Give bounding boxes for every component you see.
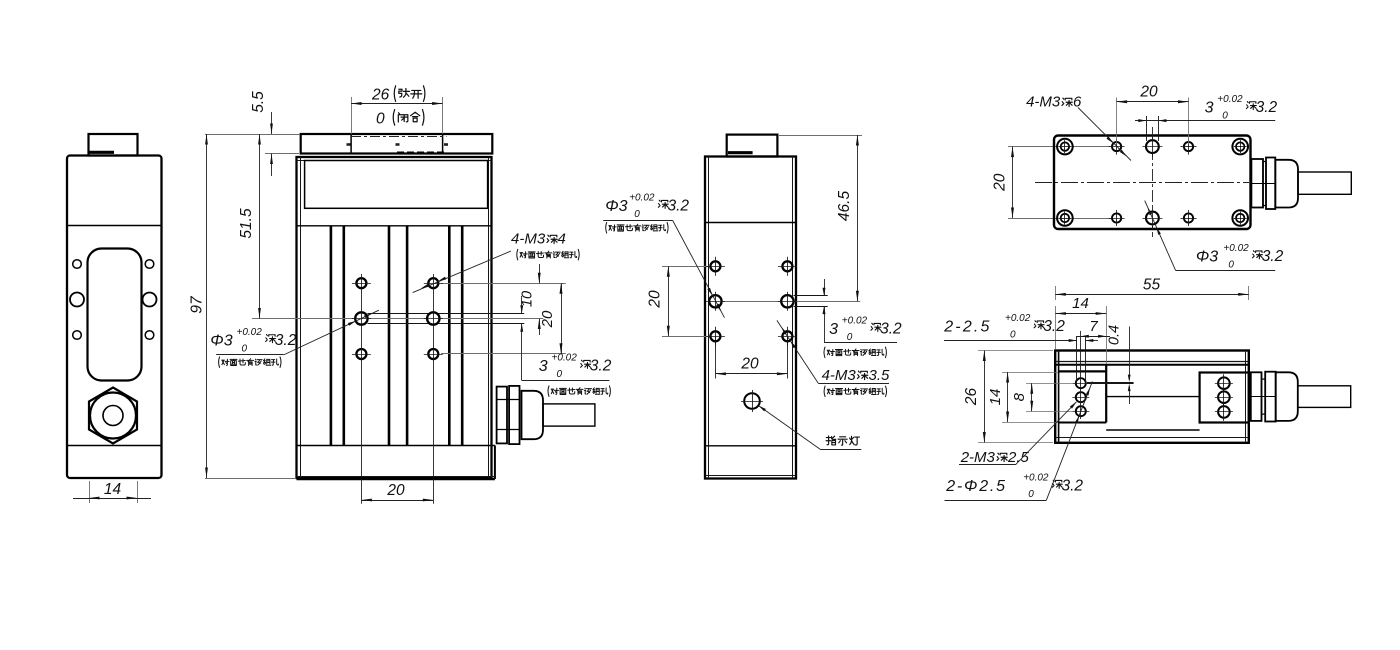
svg-text:20: 20 bbox=[740, 356, 759, 373]
dimension 0.4 (view5) bbox=[1129, 327, 1131, 380]
view3 indicator light bbox=[744, 393, 760, 409]
view1 hex nut bbox=[89, 388, 137, 444]
view2 phantom centerline of jaws bbox=[351, 136, 447, 138]
view1 nut outer circle bbox=[90, 393, 136, 439]
svg-text:2-Φ2.5: 2-Φ2.5 bbox=[945, 478, 1007, 495]
svg-text:Φ3: Φ3 bbox=[210, 332, 232, 349]
view3 slot edges row2 bbox=[794, 295, 828, 297]
svg-text:51.5: 51.5 bbox=[238, 208, 255, 239]
view3 section lines bbox=[705, 222, 796, 224]
svg-text:+0.02: +0.02 bbox=[842, 316, 868, 327]
dimension 14 top (view5) bbox=[1055, 306, 1057, 349]
leader Phi3 (view3) bbox=[673, 221, 725, 318]
view2 row1 extension line bbox=[441, 283, 566, 285]
svg-text:0: 0 bbox=[847, 332, 853, 343]
svg-text:2.5: 2.5 bbox=[1007, 449, 1030, 466]
view4 extension lines left bbox=[1008, 146, 1121, 148]
dimension 26 (view5 left) bbox=[978, 350, 1053, 352]
view4 top/bottom hole rows bbox=[1112, 142, 1121, 151]
svg-text:5.5: 5.5 bbox=[250, 91, 267, 113]
view3 hole col extensions for bottom 20 dim bbox=[715, 336, 717, 378]
dimension 26 open (view2 top) bbox=[351, 97, 353, 134]
svg-text:3: 3 bbox=[1205, 99, 1214, 116]
view2 jaw open-position lines bbox=[350, 134, 352, 154]
dimension 20 vertical (view3 left) bbox=[668, 266, 670, 336]
view3 row extension lines for 20 dim bbox=[662, 266, 710, 268]
svg-text:+0.02: +0.02 bbox=[1023, 473, 1049, 484]
leader 2-Phi2.5 (view5) bbox=[1046, 381, 1092, 500]
view2 mounting holes 2x3 bbox=[356, 278, 366, 288]
svg-text:0.4: 0.4 bbox=[1107, 325, 1123, 345]
view2 guide rail columns bbox=[330, 226, 333, 446]
svg-text:46.5: 46.5 bbox=[836, 191, 853, 222]
svg-text:0: 0 bbox=[242, 344, 248, 355]
view4 corner screws bbox=[1057, 139, 1073, 155]
view2 row3 extension line bbox=[441, 353, 566, 355]
label 3 tol depth3.2 (view3 right) bbox=[824, 279, 826, 296]
dimension 20 (view2 bottom) bbox=[361, 500, 433, 502]
svg-text:3: 3 bbox=[539, 358, 548, 375]
view2 section divider bbox=[297, 225, 492, 227]
view2 cable bbox=[543, 404, 595, 426]
svg-text:3.2: 3.2 bbox=[1043, 318, 1065, 335]
view5 rail lines bbox=[1106, 396, 1199, 398]
svg-text:0: 0 bbox=[376, 110, 385, 127]
svg-text:2-M3: 2-M3 bbox=[960, 449, 996, 466]
view4 cable bbox=[1298, 172, 1351, 194]
svg-text:3.2: 3.2 bbox=[275, 332, 297, 349]
svg-text:+0.02: +0.02 bbox=[552, 353, 578, 364]
svg-text:14: 14 bbox=[1072, 295, 1089, 312]
dimension 7 (view5) bbox=[1076, 336, 1110, 338]
dimension 46.5 (view3 right) bbox=[779, 135, 862, 137]
svg-text:0: 0 bbox=[634, 209, 640, 220]
svg-text:0: 0 bbox=[1228, 260, 1234, 271]
svg-text:3.2: 3.2 bbox=[1262, 248, 1284, 265]
dimension 97 (view2 overall height) bbox=[205, 134, 300, 136]
view5 0.4 step lines bbox=[1087, 382, 1134, 384]
svg-text:4-M3: 4-M3 bbox=[511, 231, 546, 248]
svg-text:3.2: 3.2 bbox=[880, 321, 902, 338]
leader 4-M3 (view4) bbox=[1078, 108, 1131, 161]
svg-text:8: 8 bbox=[1011, 392, 1028, 401]
view5 left finger block bbox=[1059, 370, 1107, 372]
view4 body bbox=[1054, 136, 1251, 230]
view1 side holes bbox=[73, 260, 82, 269]
view2 upper inner box bbox=[305, 161, 488, 209]
view2 top cap bbox=[301, 134, 493, 154]
svg-text:0: 0 bbox=[557, 369, 563, 380]
label 3 tol depth3.2 (view2 right) bbox=[521, 296, 523, 313]
leader 2-M3 (view5) bbox=[1016, 402, 1077, 465]
view1: left side view of gripper body bbox=[67, 134, 162, 503]
view5 slot edge verticals bbox=[1076, 337, 1078, 383]
dimension 14 vertical (view5) bbox=[1002, 372, 1058, 374]
view2 cable gland bbox=[497, 387, 507, 444]
view5 cable bbox=[1298, 386, 1351, 408]
svg-text:26: 26 bbox=[371, 87, 390, 104]
label indicator light bbox=[759, 406, 821, 450]
svg-text:20: 20 bbox=[386, 482, 405, 499]
svg-text:97: 97 bbox=[189, 295, 206, 314]
svg-text:+0.02: +0.02 bbox=[1223, 243, 1249, 254]
dimension 20 (view2 right) bbox=[561, 283, 563, 354]
svg-text:55: 55 bbox=[1143, 277, 1161, 294]
svg-text:7: 7 bbox=[1089, 318, 1098, 335]
leader Phi3 (view2) bbox=[283, 310, 379, 355]
view2 body outline bbox=[297, 157, 492, 478]
svg-text:+0.02: +0.02 bbox=[629, 193, 655, 204]
svg-text:Φ3: Φ3 bbox=[605, 198, 627, 215]
svg-text:3.2: 3.2 bbox=[590, 358, 612, 375]
svg-text:0: 0 bbox=[1222, 111, 1228, 122]
leader 4-M3 (view2) bbox=[413, 251, 511, 293]
view5 body bbox=[1055, 351, 1249, 443]
view1 nut bore circle bbox=[103, 406, 123, 426]
svg-text:14: 14 bbox=[104, 481, 122, 498]
dimension 5.5 (view2 cap height) bbox=[265, 153, 299, 155]
view1 lower section line bbox=[67, 445, 162, 447]
svg-text:+0.02: +0.02 bbox=[237, 327, 263, 338]
svg-text:+0.02: +0.02 bbox=[1217, 94, 1243, 105]
label 3 tol depth3.2 (view4) bbox=[1135, 120, 1275, 122]
svg-text:3.2: 3.2 bbox=[1256, 99, 1278, 116]
svg-text:20: 20 bbox=[539, 310, 556, 328]
label Phi3 tol depth3.2 (view4 bottom) bbox=[1176, 270, 1276, 272]
dimension 20 horizontal (view3 bottom) bbox=[715, 373, 787, 375]
view5 block holes bbox=[1076, 378, 1086, 388]
svg-text:20: 20 bbox=[1139, 84, 1158, 101]
svg-text:4-M3: 4-M3 bbox=[822, 367, 857, 384]
view5 cable gland bbox=[1251, 372, 1262, 421]
svg-text:3.5: 3.5 bbox=[869, 367, 891, 384]
view1 upper section line bbox=[67, 225, 162, 227]
view2 slot edges at row2 bbox=[368, 313, 525, 315]
svg-text:0: 0 bbox=[1028, 489, 1034, 500]
svg-text:Φ3: Φ3 bbox=[1196, 249, 1218, 266]
svg-text:20: 20 bbox=[647, 290, 664, 309]
view4 horizontal centerline bbox=[1035, 182, 1249, 184]
view3 holes 2x3 bbox=[710, 261, 720, 271]
svg-text:2-2.5: 2-2.5 bbox=[943, 319, 991, 336]
view1 body bbox=[67, 156, 162, 479]
view1 center slot bbox=[88, 249, 142, 381]
svg-text:4-M3: 4-M3 bbox=[1026, 94, 1061, 111]
view2 row2 horizontal line (51.5 extension + slot centerline) bbox=[252, 318, 543, 320]
view2 jaw closed dashed line bbox=[397, 151, 447, 153]
dimension 51.5 (view2) bbox=[259, 134, 261, 319]
svg-text:14: 14 bbox=[987, 389, 1004, 406]
view1 top cap bbox=[89, 134, 138, 156]
view5 top lines bbox=[1055, 361, 1249, 363]
svg-text:3: 3 bbox=[829, 321, 838, 338]
svg-text:4: 4 bbox=[558, 231, 566, 248]
view5 right block bbox=[1200, 373, 1249, 423]
dimension 20 (view4 left) bbox=[1012, 147, 1014, 218]
view4 vertical centerline bbox=[1152, 127, 1154, 237]
dimension 14 (view1 bottom) bbox=[89, 481, 91, 503]
svg-text:3.2: 3.2 bbox=[1062, 478, 1084, 495]
svg-text:6: 6 bbox=[1073, 94, 1082, 111]
view2 hole vertical centerlines down to dim bbox=[361, 274, 363, 504]
view4 slot edge lines bbox=[1146, 116, 1148, 141]
view2 bottom block bbox=[297, 445, 495, 447]
view2: front view bbox=[252, 134, 566, 504]
dimension 55 (view5 top) bbox=[1055, 286, 1057, 300]
svg-text:3.2: 3.2 bbox=[668, 198, 690, 215]
dimension 8 (view5) bbox=[1026, 383, 1072, 385]
view3 body bbox=[705, 157, 796, 479]
dimension 20 (view4 top) bbox=[1116, 98, 1118, 145]
svg-text:+0.02: +0.02 bbox=[1005, 313, 1031, 324]
svg-text:0: 0 bbox=[1010, 330, 1016, 341]
view3 row2 centerline extension bbox=[710, 301, 860, 303]
view1 jaw seam thick bar bbox=[89, 151, 114, 154]
svg-text:26: 26 bbox=[963, 388, 980, 407]
view4 cable gland bbox=[1251, 159, 1263, 208]
view3 top cap bbox=[727, 135, 778, 157]
dimension 10 (view2 right) bbox=[539, 264, 541, 283]
leader 4-M3 (view3) bbox=[777, 320, 818, 383]
svg-text:20: 20 bbox=[992, 173, 1009, 192]
leader Phi3 (view4) bbox=[1145, 201, 1176, 271]
